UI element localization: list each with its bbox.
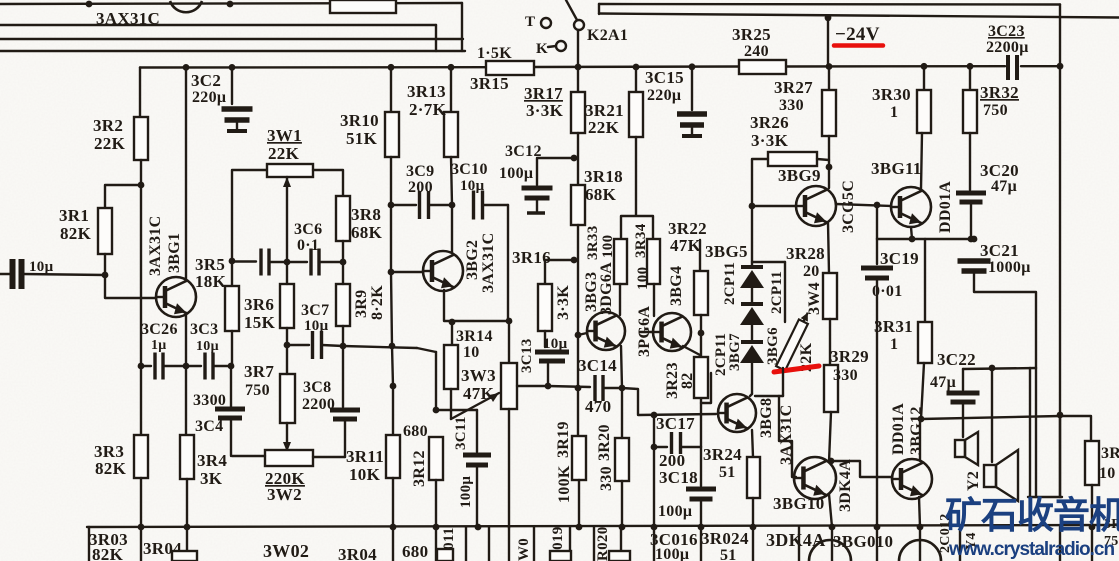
svg-text:3300: 3300	[193, 392, 226, 409]
capacitor 3C7	[313, 331, 322, 359]
node 3R16 wire	[571, 257, 578, 264]
node wire204	[874, 202, 881, 209]
svg-text:3C19: 3C19	[880, 249, 919, 268]
label 3R03	[89, 530, 128, 549]
wire y417	[921, 416, 1060, 419]
label 47K 3R22	[670, 236, 702, 255]
svg-text:3C26: 3C26	[141, 321, 178, 338]
wire 3W2 right	[313, 456, 345, 458]
label 3R6	[244, 295, 274, 314]
label 3R27	[774, 78, 813, 97]
svg-text:3BG12: 3BG12	[908, 406, 925, 455]
wire 3BG4 emitter	[683, 346, 700, 355]
wire col230 lower	[230, 366, 232, 407]
wire bus connector v2	[461, 3, 463, 51]
label 22K 3R21	[588, 118, 620, 137]
label 3C19	[880, 249, 919, 268]
svg-text:3·3K: 3·3K	[751, 131, 789, 150]
capacitor 3C2	[222, 109, 253, 120]
wire 3R10 top	[390, 67, 392, 112]
wire top bus line 3	[0, 38, 463, 40]
svg-text:20: 20	[803, 263, 820, 280]
label 200 3C9	[408, 179, 433, 196]
label 3BG8 rot	[758, 398, 775, 438]
label 47u 3C22	[930, 374, 956, 391]
svg-text:3C15: 3C15	[645, 68, 684, 87]
wire 3c7 d	[417, 348, 436, 352]
svg-text:100μ: 100μ	[458, 476, 474, 508]
wire 3C26	[141, 365, 151, 367]
label 10u 3C7	[304, 318, 329, 334]
red underline -24V	[834, 43, 883, 48]
node bus 920	[917, 524, 924, 531]
wire 3C4 bottom	[230, 420, 232, 456]
transistor 3BG11	[891, 187, 931, 227]
svg-text:3R7: 3R7	[244, 362, 274, 381]
svg-text:3BG2: 3BG2	[464, 240, 481, 280]
svg-text:10K: 10K	[349, 465, 381, 484]
wire 3BG1 collector	[185, 67, 187, 281]
label 3W4 rot	[806, 282, 823, 315]
wire col141 lower	[140, 366, 142, 435]
label 0.1	[297, 237, 319, 254]
node 992 368	[989, 365, 996, 372]
capacitor 3C3	[205, 353, 213, 380]
wire 3C21 down	[974, 272, 1036, 368]
arrow 3W3 wiper	[451, 393, 499, 419]
label 3R12 rot	[411, 450, 428, 487]
wire 3c17 b	[681, 446, 701, 448]
wire stub ch2 393	[392, 527, 394, 561]
svg-text:680: 680	[402, 542, 428, 561]
resistor 3R10	[385, 112, 399, 157]
label 82 rot	[679, 372, 696, 389]
transistor bottom partial a	[809, 540, 851, 561]
svg-text:10μ: 10μ	[29, 259, 54, 275]
svg-text:−24V: −24V	[835, 24, 880, 45]
svg-text:100K: 100K	[556, 465, 573, 503]
svg-text:2200μ: 2200μ	[986, 39, 1029, 56]
label 100u 3C12	[499, 165, 533, 182]
label 1000u	[988, 259, 1031, 276]
label 750	[245, 382, 270, 399]
svg-text:3R24: 3R24	[703, 445, 742, 464]
resistor 3R27	[822, 90, 836, 136]
wire 3C13 bottom	[547, 364, 549, 386]
wire 3c14 a	[548, 386, 590, 387]
label 3R15	[470, 74, 509, 93]
node rail K2A1	[575, 64, 582, 71]
label 100K rot	[556, 465, 573, 503]
wire d2-d3	[751, 325, 753, 342]
switch pole K2A1 circle	[574, 20, 584, 30]
wire 3c9 a	[391, 204, 416, 206]
wire 3BG9 emitter	[828, 223, 829, 273]
resistor 3R14	[444, 345, 458, 389]
diode 3BG6-7	[740, 342, 764, 363]
label 3R1	[59, 206, 89, 225]
svg-text:3R024: 3R024	[701, 529, 749, 548]
wire col391 mid2	[391, 272, 392, 346]
svg-text:3C4: 3C4	[195, 418, 223, 435]
label 3R right	[1101, 445, 1119, 462]
label 22K 3W1	[268, 144, 300, 163]
resistor 3R12	[429, 437, 443, 480]
wire 3c17 a	[654, 446, 667, 448]
label 10K	[349, 465, 381, 484]
wire stub ch2 89	[88, 527, 90, 561]
wire top right line a	[599, 14, 1119, 18]
svg-text:3C6: 3C6	[294, 221, 322, 238]
label 3C22	[937, 350, 976, 369]
wire 3R21 top	[635, 67, 637, 92]
svg-text:22K: 22K	[268, 144, 300, 163]
svg-text:100: 100	[635, 267, 651, 290]
arrow 3W1 wiper	[283, 177, 291, 187]
wire col391 lower	[392, 386, 394, 435]
label 3C18	[659, 468, 698, 487]
wire stub ch2 436	[435, 527, 437, 561]
label 3R22	[668, 219, 707, 238]
label 51K	[346, 129, 378, 148]
svg-text:3BG010: 3BG010	[833, 532, 893, 551]
svg-text:10: 10	[463, 344, 480, 361]
capacitor 3C18	[686, 489, 716, 499]
wire col578 down2	[577, 388, 579, 436]
svg-text:10μ: 10μ	[196, 339, 219, 354]
node input 3R1	[102, 272, 109, 279]
svg-text:3DK4A: 3DK4A	[837, 459, 854, 512]
label 3C4	[195, 418, 223, 435]
wire stub ch2 187	[186, 527, 188, 561]
wire 3R16 bottom	[544, 331, 546, 347]
label 3300	[193, 392, 226, 409]
node 3C7 left	[284, 342, 291, 349]
node rail corner	[1057, 63, 1064, 70]
wire right pair a	[1029, 368, 1031, 497]
label 1.5K	[477, 45, 512, 62]
wire 3R11 bottom	[392, 478, 394, 527]
watermark url	[948, 539, 1114, 560]
box bottom a	[437, 549, 453, 561]
wire right vertical	[1059, 5, 1061, 498]
label 680 3R12	[403, 423, 428, 440]
wire right box down	[1091, 485, 1093, 527]
svg-text:3R29: 3R29	[830, 347, 869, 366]
label 3K	[200, 469, 223, 488]
wire 3c9 b	[429, 204, 452, 206]
wire 3BG3 collector	[619, 284, 621, 315]
label 3C17	[656, 414, 695, 433]
label DD01A rot	[937, 181, 954, 233]
node col391 3c7	[389, 343, 396, 350]
wire 3C11 bottom	[476, 466, 478, 527]
resistor 3R23	[694, 357, 708, 398]
label 3C10	[451, 161, 488, 178]
resistor 3R8	[336, 196, 350, 241]
wire stub ch2 509	[508, 527, 510, 561]
wire 3C2 stub	[236, 122, 238, 129]
wire 3BG4 collector	[653, 284, 655, 316]
label 3AX31C 3BG2	[480, 233, 497, 293]
svg-text:200: 200	[408, 179, 433, 196]
wire stub ch2 960	[959, 527, 961, 561]
transistor 3BG10	[794, 457, 836, 499]
label 3.3K rot	[555, 285, 572, 320]
wire 3BG8 collector top	[750, 394, 752, 396]
wire input left	[0, 273, 11, 275]
label 3AX31C 3BG1	[147, 216, 164, 276]
label 3DG6A rot	[598, 262, 615, 315]
capacitor 3C26	[155, 353, 163, 380]
label 3W2	[267, 485, 302, 504]
label 3R25	[732, 25, 771, 44]
wire 3R6 bottom	[286, 328, 288, 345]
label 3R31	[874, 317, 913, 336]
svg-text:2CP11: 2CP11	[722, 262, 738, 305]
resistor 3R5	[225, 286, 239, 331]
wire bar497	[1028, 496, 1062, 498]
label 10 right	[1099, 465, 1116, 482]
wire 3R17-3R18	[577, 133, 579, 185]
wire col391 mid	[390, 205, 392, 272]
capacitor 3C2 endbar	[227, 129, 247, 133]
transistor top partial	[170, 1, 202, 12]
svg-text:8·2K: 8·2K	[369, 285, 386, 320]
svg-text:3R1: 3R1	[59, 206, 89, 225]
node bus dots2	[433, 524, 482, 531]
wire trimmer top	[784, 262, 786, 322]
svg-text:2·7K: 2·7K	[409, 100, 447, 119]
speaker Y4 big	[984, 450, 1018, 501]
label 3R20 rot	[596, 424, 613, 461]
wire main rail mid	[533, 65, 740, 68]
svg-text:3C18: 3C18	[659, 468, 698, 487]
svg-text:3R10: 3R10	[340, 111, 379, 130]
resistor 3R33	[614, 239, 627, 284]
wire 3BG2 collector	[451, 205, 453, 252]
wire 3C18 bottom	[700, 500, 702, 527]
label 3R21	[585, 101, 624, 120]
node rail 3R10	[388, 64, 395, 71]
wire 3R10 bottom	[390, 157, 392, 205]
resistor 3R7	[280, 374, 295, 423]
label 100 rot a	[600, 235, 616, 258]
svg-text:3C22: 3C22	[937, 350, 976, 369]
wire col578 down	[577, 335, 579, 388]
label 3R18	[584, 167, 623, 186]
wire 3R27 top	[828, 67, 830, 91]
svg-text:1: 1	[890, 336, 898, 353]
label 3R34 rot	[633, 223, 649, 258]
wire 3R13 bottom	[451, 157, 452, 205]
wire 3BG9 base	[752, 205, 796, 207]
transistor 3BG8	[718, 394, 756, 432]
svg-text:3BG5: 3BG5	[705, 242, 748, 261]
wire 3C20 down	[970, 204, 972, 239]
node 974 239	[971, 236, 978, 243]
label 330 rot	[598, 466, 615, 491]
svg-text:47K: 47K	[670, 236, 702, 255]
label 82K 3R1	[60, 224, 92, 243]
node emitter join	[183, 363, 190, 370]
label 3C016	[650, 530, 698, 549]
node rail 3R30	[921, 63, 928, 70]
node bus 753	[750, 524, 757, 531]
svg-text:3BG10: 3BG10	[773, 494, 825, 513]
label 3R7	[244, 362, 274, 381]
svg-text:3R25: 3R25	[732, 25, 771, 44]
svg-text:1: 1	[890, 104, 898, 121]
wire top bus line 4	[0, 50, 465, 52]
label 2C012 rot	[938, 513, 953, 553]
resistor 3R4	[180, 435, 194, 479]
svg-text:DD01A: DD01A	[890, 403, 907, 455]
wire 3R30 top	[923, 66, 925, 90]
svg-text:3C3: 3C3	[190, 321, 218, 338]
label 3R17	[524, 84, 563, 103]
svg-text:K: K	[536, 41, 548, 57]
svg-text:3R20: 3R20	[596, 424, 613, 461]
wire stub ch2 594	[593, 527, 595, 561]
label 3C14	[578, 356, 617, 375]
svg-text:3C10: 3C10	[451, 161, 488, 178]
red mark 22K	[774, 366, 819, 372]
svg-text:0·1: 0·1	[297, 237, 319, 254]
node col578 386	[575, 385, 582, 392]
wire top bus line 2	[0, 24, 436, 26]
svg-text:10: 10	[1099, 465, 1116, 482]
resistor right edge	[1085, 441, 1099, 485]
wire stub ch2 534	[533, 527, 535, 561]
label 3DK4A b	[766, 530, 826, 550]
svg-text:220μ: 220μ	[192, 89, 226, 106]
svg-text:51: 51	[719, 464, 736, 481]
node 436 410	[433, 407, 440, 414]
svg-text:3R19: 3R19	[555, 421, 572, 458]
resistor 3R25	[739, 60, 786, 74]
label 3R28	[786, 244, 825, 263]
label 3R right2	[1104, 517, 1119, 532]
wire 3c14 b	[604, 387, 622, 389]
label 1 3R30	[890, 104, 898, 121]
label 3BG4 rot	[668, 266, 685, 306]
node right mid	[1057, 412, 1064, 419]
label 3R9 rot	[353, 290, 370, 318]
wire 3R14 bottom	[450, 389, 452, 419]
wire 3C8 top	[342, 346, 344, 407]
node on line1 b	[227, 1, 234, 8]
switch contact K circle	[556, 41, 566, 51]
svg-text:3·3K: 3·3K	[526, 101, 564, 120]
wire 3R2 bottom	[140, 160, 142, 185]
wire 3R6 top	[286, 262, 288, 284]
svg-text:100μ: 100μ	[658, 503, 692, 520]
svg-text:47μ: 47μ	[991, 178, 1017, 195]
label 20	[803, 263, 820, 280]
wire 3R5 top	[231, 261, 233, 286]
wire 3BG1 emitter	[185, 313, 187, 366]
resistor 3R6	[280, 284, 294, 328]
label 3C6	[294, 221, 322, 238]
node 831 461	[828, 458, 835, 465]
label -24V	[835, 24, 880, 45]
node bus 877	[874, 524, 881, 531]
svg-text:3R9: 3R9	[353, 290, 370, 318]
wire 3c7 a	[287, 344, 309, 346]
svg-text:750: 750	[245, 382, 270, 399]
svg-text:3R30: 3R30	[872, 85, 911, 104]
svg-text:18K: 18K	[195, 272, 227, 291]
wire stub ch2 832	[831, 527, 833, 561]
wire 3R7 bottom	[286, 423, 288, 452]
label 3BG12 rot	[908, 406, 925, 455]
svg-text:3R28: 3R28	[786, 244, 825, 263]
capacitor 3C23	[1008, 55, 1017, 80]
wire 3R31 top	[924, 239, 926, 322]
svg-text:3R2: 3R2	[93, 116, 123, 135]
label 2CP11 a rot	[722, 262, 738, 305]
node rail 3C15	[689, 63, 696, 70]
resistor top edge box	[330, 0, 396, 13]
wire c3-col232	[214, 365, 231, 367]
wire input to base	[23, 274, 105, 275]
wire stub ch2 799	[798, 527, 800, 561]
wire stub ch2 621	[620, 527, 622, 561]
wire small L	[701, 373, 711, 403]
svg-text:3AX31C: 3AX31C	[480, 233, 497, 293]
label 3R8	[351, 205, 381, 224]
wire 3C22 stub	[962, 369, 964, 390]
label 3R3	[94, 442, 124, 461]
svg-text:82K: 82K	[60, 224, 92, 243]
wire 3C19 down	[876, 280, 878, 527]
wire 3c6ab	[270, 261, 307, 263]
svg-text:3R11: 3R11	[346, 447, 384, 466]
resistor 3R16	[538, 284, 552, 331]
svg-text:3R34: 3R34	[633, 223, 649, 258]
node rail 3C2	[229, 64, 236, 71]
svg-text:3C7: 3C7	[301, 302, 329, 319]
svg-text:68K: 68K	[585, 185, 617, 204]
wire 3W3 bottom	[508, 409, 510, 528]
wire 3BG9 collector	[828, 167, 830, 188]
label 100u b	[655, 546, 689, 561]
svg-text:680: 680	[403, 423, 428, 440]
label 68K 3R8	[351, 223, 383, 242]
label 240	[744, 43, 769, 60]
label DD01A 12 rot	[890, 403, 907, 455]
label 1 3R31	[890, 336, 898, 353]
label 220K	[265, 469, 305, 488]
label 22K rot	[798, 342, 815, 372]
node rail 3BG1	[183, 64, 190, 71]
node 3C12 wire	[571, 155, 578, 162]
label 470	[585, 397, 611, 416]
label 220u 3C15	[647, 87, 681, 104]
arrow 3W2 wiper	[283, 442, 291, 452]
svg-text:3BG9: 3BG9	[778, 166, 821, 185]
svg-text:3AX31C: 3AX31C	[96, 9, 160, 28]
node 912 239	[909, 236, 916, 243]
svg-text:82: 82	[679, 372, 696, 389]
svg-text:3C13: 3C13	[519, 338, 535, 373]
label Y2 rot	[965, 471, 982, 491]
svg-text:1·5K: 1·5K	[477, 45, 512, 62]
label 3BG11	[871, 159, 922, 178]
label 10u 3C3	[196, 339, 219, 354]
wire 3R8 bottom	[342, 241, 344, 262]
